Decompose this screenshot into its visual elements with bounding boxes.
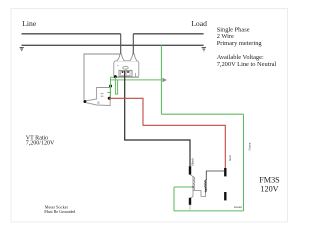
arrow at neutral tap — [162, 78, 167, 83]
coil bottom jumper — [193, 191, 206, 197]
page frame — [11, 9, 288, 223]
VT base tick — [135, 73, 137, 77]
meter coil2 (potential coil) — [205, 171, 224, 192]
wire drop to VT bushing H1 — [120, 34, 122, 54]
VT terminal X1 — [121, 71, 125, 75]
svg-text:Primary metering: Primary metering — [217, 40, 263, 47]
ground symbol right neutral end — [202, 48, 206, 51]
VT dot — [117, 65, 118, 66]
wire top line right segment — [133, 33, 203, 35]
junction ground dot on VT base — [114, 75, 117, 78]
green wire bottom bus — [174, 210, 244, 212]
svg-text:Red: Red — [228, 155, 232, 161]
junction dot green tap — [192, 186, 194, 188]
green wire right vertical — [243, 114, 245, 211]
VT bushing right — [130, 54, 137, 61]
svg-text:120V: 120V — [260, 184, 278, 193]
green wire left riser — [173, 187, 175, 211]
wire top line left segment — [22, 33, 121, 35]
fuse top-right junction dot — [109, 85, 112, 88]
green wire horizontal bus y80 — [111, 79, 162, 81]
svg-text:Load: Load — [191, 19, 207, 28]
meter blade top-right — [224, 168, 226, 176]
fuse inner marks — [101, 94, 104, 97]
meter blade top-left — [189, 166, 191, 174]
svg-text:Must Be Grounded: Must Be Grounded — [44, 209, 75, 214]
VT terminal box — [119, 70, 132, 76]
green wire U below base dot — [115, 77, 117, 94]
green wire horizontal y114 — [161, 113, 243, 115]
svg-text:7,200/120V: 7,200/120V — [26, 140, 55, 146]
meter coil1 (current coil) — [190, 175, 206, 198]
svg-text:Green: Green — [234, 205, 242, 209]
meter blade bottom-right — [224, 192, 226, 200]
fuse F1 body — [84, 88, 110, 106]
meter blade bottom-left — [189, 198, 191, 205]
VT oval nameplate — [123, 66, 128, 69]
svg-text:Green: Green — [248, 142, 252, 150]
svg-text:FM3S: FM3S — [259, 176, 280, 185]
green wire tap to coil — [174, 186, 193, 188]
ground symbol left neutral end — [20, 48, 24, 51]
VT terminal stud marks — [122, 71, 124, 73]
wire neutral line — [22, 44, 204, 46]
transformer VT body — [114, 54, 139, 77]
green wire below bottom-left blade — [189, 205, 191, 211]
junction dot red terminal — [108, 97, 111, 100]
svg-text:Line: Line — [22, 19, 37, 28]
green wire neutral drop — [160, 45, 162, 114]
black secondary wire — [125, 71, 190, 166]
svg-text:Black: Black — [190, 158, 194, 166]
svg-text:7,200V Line to Neutral: 7,200V Line to Neutral — [217, 61, 277, 68]
red secondary wire — [109, 98, 225, 168]
wire drop to VT bushing H2 — [132, 34, 134, 54]
VT bushing left — [117, 54, 124, 61]
VT base line — [111, 76, 140, 78]
VT terminal X2 — [126, 71, 130, 75]
fuse tip junction dot — [83, 100, 86, 103]
wire fuse riser from bushing point — [84, 54, 121, 100]
fuse green terminal stub — [107, 92, 110, 94]
green wire VT base to fuse terminal — [110, 77, 112, 97]
fuse bottom bolt circle — [98, 102, 100, 104]
